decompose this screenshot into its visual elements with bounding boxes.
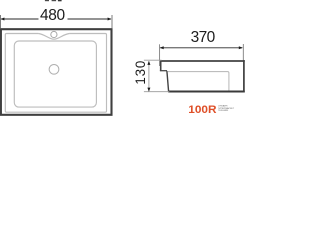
dimension 130 extension ticks <box>144 60 169 91</box>
top view basin outline <box>14 41 96 107</box>
dimension 480 extension lines <box>0 15 112 28</box>
cropped text remnants top <box>45 0 62 1</box>
top view outer rim <box>1 29 112 115</box>
svg-text:ТЕХНИКИ: ТЕХНИКИ <box>218 110 229 112</box>
dimension 370 extension lines <box>160 44 244 66</box>
top view rim inner edge with faucet dip <box>5 34 106 113</box>
dimension 370 line with arrows <box>160 46 243 49</box>
svg-text:480: 480 <box>40 7 65 24</box>
drain hole <box>49 64 59 74</box>
logo caption text <box>218 105 235 112</box>
side view basin inner profile <box>168 72 229 91</box>
side view outline <box>160 60 245 92</box>
svg-text:370: 370 <box>191 29 216 46</box>
dimension 480 line with arrows <box>0 18 111 21</box>
dimension text 480 <box>40 7 65 24</box>
dimension text 130 (rotated) <box>133 60 148 85</box>
svg-text:130: 130 <box>133 60 148 85</box>
dimension text 370 <box>191 29 216 46</box>
svg-text:100R: 100R <box>188 104 216 116</box>
faucet hole <box>51 31 57 37</box>
dimension 130 line with arrows <box>147 61 150 92</box>
logo 100R <box>188 104 216 116</box>
